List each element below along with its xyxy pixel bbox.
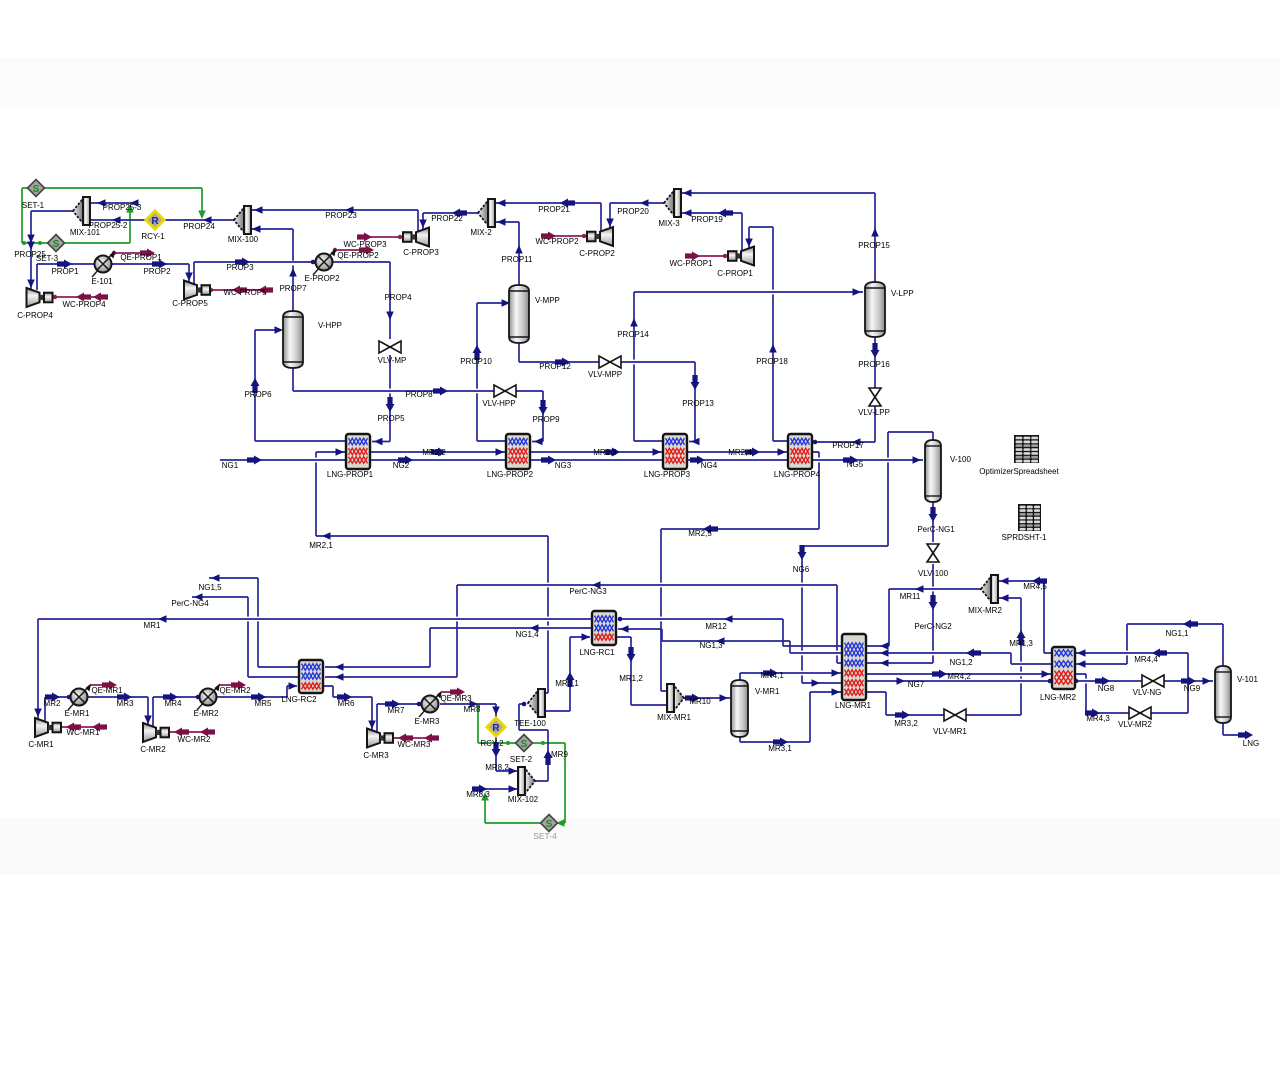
- stream PROP11: [495, 218, 523, 285]
- svg-text:VLV-NG: VLV-NG: [1133, 688, 1162, 697]
- stream PROP8: [293, 368, 494, 396]
- svg-text:MR9: MR9: [551, 750, 568, 759]
- svg-text:MR2,3: MR2,3: [593, 448, 617, 457]
- svg-text:MR2: MR2: [44, 699, 61, 708]
- svg-text:PROP16: PROP16: [858, 360, 890, 369]
- signal wire MR8 to SET-2: [476, 704, 516, 745]
- svg-text:MR4,5: MR4,5: [1023, 582, 1047, 591]
- stream MR4,5: [998, 577, 1052, 654]
- stream MR2: [45, 693, 71, 722]
- stream NG1: [220, 456, 346, 465]
- stream PROP21: [495, 199, 601, 232]
- energy stream WC-PROP3: [357, 233, 403, 242]
- stream NG9: [1164, 677, 1213, 686]
- stream MR5: [216, 682, 297, 701]
- compressor C-PROP5: [184, 281, 210, 300]
- svg-text:SET-1: SET-1: [22, 201, 45, 210]
- svg-text:MR12: MR12: [705, 622, 727, 631]
- svg-text:VLV-MR1: VLV-MR1: [933, 727, 967, 736]
- svg-text:VLV-MP: VLV-MP: [378, 356, 407, 365]
- svg-text:PROP21: PROP21: [538, 205, 570, 214]
- stream LNG: [1223, 723, 1253, 740]
- svg-text:MR8,2: MR8,2: [485, 763, 509, 772]
- compressor C-PROP1: [728, 247, 754, 266]
- svg-text:PROP15: PROP15: [858, 241, 890, 250]
- svg-text:MR8: MR8: [464, 705, 481, 714]
- svg-text:QE-PROP1: QE-PROP1: [120, 253, 162, 262]
- svg-text:PROP13: PROP13: [682, 399, 714, 408]
- svg-text:S: S: [546, 819, 553, 830]
- mixer MIX-MR2: [981, 575, 998, 603]
- stream MR4,2: [866, 670, 1052, 679]
- svg-text:C-PROP5: C-PROP5: [172, 299, 208, 308]
- svg-text:MR10: MR10: [689, 697, 711, 706]
- svg-text:VLV-100: VLV-100: [918, 569, 949, 578]
- lng exchanger LNG-MR1: [842, 634, 866, 700]
- svg-text:E-MR3: E-MR3: [415, 717, 440, 726]
- stream MR1,1: [545, 633, 590, 711]
- stream MR1,2: [616, 637, 667, 705]
- stream MR11: [866, 585, 981, 650]
- svg-text:MR1: MR1: [144, 621, 161, 630]
- signal wire SET-1 to PROP24: [44, 188, 206, 219]
- svg-text:QE-MR2: QE-MR2: [219, 686, 251, 695]
- spreadsheet SPRDSHT-1: [1018, 504, 1041, 531]
- valve VLV-MP: [379, 341, 401, 353]
- svg-text:MR3,1: MR3,1: [768, 744, 792, 753]
- stream MR12: [618, 615, 842, 646]
- lng exchanger LNG-MR2: [1052, 647, 1075, 689]
- energy stream WC-PROP4: [53, 293, 108, 302]
- svg-text:PROP10: PROP10: [460, 357, 492, 366]
- svg-text:SET-2: SET-2: [510, 755, 533, 764]
- svg-text:VLV-MR2: VLV-MR2: [1118, 720, 1152, 729]
- svg-text:RCY-1: RCY-1: [141, 232, 165, 241]
- svg-text:MR2,2: MR2,2: [422, 448, 446, 457]
- svg-text:NG1,2: NG1,2: [949, 658, 973, 667]
- lng exchanger LNG-RC2: [299, 660, 323, 693]
- svg-text:WC-PROP1: WC-PROP1: [669, 259, 713, 268]
- svg-text:C-MR1: C-MR1: [28, 740, 54, 749]
- svg-text:MR3,2: MR3,2: [894, 719, 918, 728]
- svg-text:PROP5: PROP5: [377, 414, 405, 423]
- svg-text:MR4: MR4: [165, 699, 182, 708]
- energy stream QE-PROP2: [333, 246, 374, 255]
- svg-text:PROP7: PROP7: [279, 284, 307, 293]
- svg-text:WC-PROP3: WC-PROP3: [343, 240, 387, 249]
- energy stream WC-MR3: [390, 734, 439, 743]
- stream MR8: [440, 700, 500, 717]
- svg-text:LNG-RC2: LNG-RC2: [281, 695, 317, 704]
- svg-text:SET-3: SET-3: [36, 254, 59, 263]
- svg-text:MR1,1: MR1,1: [555, 679, 579, 688]
- labels SET-4 gray: [533, 831, 557, 841]
- energy stream QE-PROP1: [112, 249, 155, 258]
- svg-text:NG2: NG2: [393, 461, 410, 470]
- svg-text:PROP17: PROP17: [832, 441, 864, 450]
- stream PROP5: [372, 355, 395, 445]
- svg-text:MR8,3: MR8,3: [466, 790, 490, 799]
- separator V-MR1: [731, 680, 748, 737]
- svg-text:RCY-2: RCY-2: [480, 739, 504, 748]
- svg-text:LNG-PROP3: LNG-PROP3: [644, 470, 691, 479]
- svg-text:PROP3: PROP3: [226, 263, 254, 272]
- stream NG7: [866, 677, 1052, 685]
- separator V-101: [1215, 666, 1231, 723]
- svg-text:PROP2: PROP2: [143, 267, 171, 276]
- energy stream WC-PROP2: [541, 232, 587, 241]
- stream MR1,3: [966, 594, 1026, 715]
- svg-text:NG8: NG8: [1098, 684, 1115, 693]
- stream MR2,1: [316, 448, 548, 540]
- stream MR2,2: [370, 448, 506, 457]
- cooler E-MR1: [68, 684, 91, 711]
- svg-text:PROP11: PROP11: [502, 255, 534, 264]
- lng exchanger LNG-PROP1: [346, 434, 370, 469]
- lng exchanger LNG-PROP2: [506, 434, 530, 469]
- stream PROP24: [163, 216, 234, 224]
- stream NG1,1: [1075, 620, 1223, 668]
- valve VLV-MR1: [944, 709, 966, 721]
- stream MR1: [34, 615, 592, 719]
- svg-text:LNG-RC1: LNG-RC1: [579, 648, 615, 657]
- svg-text:R: R: [492, 723, 500, 734]
- svg-text:NG1,5: NG1,5: [198, 583, 222, 592]
- tee TEE-100: [528, 689, 545, 717]
- svg-text:MR2,4: MR2,4: [728, 448, 752, 457]
- svg-text:QE-MR1: QE-MR1: [91, 686, 123, 695]
- svg-text:LNG-PROP4: LNG-PROP4: [774, 470, 821, 479]
- svg-text:R: R: [151, 216, 159, 227]
- svg-text:LNG-MR2: LNG-MR2: [1040, 693, 1077, 702]
- set block SET-4: [541, 815, 558, 832]
- svg-text:QE-MR3: QE-MR3: [440, 694, 472, 703]
- svg-text:VLV-LPP: VLV-LPP: [858, 408, 890, 417]
- svg-text:PROP20: PROP20: [617, 207, 649, 216]
- svg-text:MR2,5: MR2,5: [688, 529, 712, 538]
- stream MR7: [377, 700, 421, 732]
- signal wire SET-4 to MR8,3: [481, 792, 540, 823]
- stream PROP19: [681, 209, 742, 251]
- stream MR3,2: [866, 692, 944, 720]
- stream MR8,3: [472, 785, 518, 794]
- stream NG1,4: [325, 624, 592, 671]
- svg-text:LNG-PROP2: LNG-PROP2: [487, 470, 534, 479]
- svg-text:WC-PROP4: WC-PROP4: [62, 300, 106, 309]
- spreadsheet OptimizerSpreadsheet: [1014, 435, 1039, 463]
- stream PROP7: [251, 225, 297, 311]
- valve VLV-MR2: [1129, 707, 1151, 719]
- svg-text:V-LPP: V-LPP: [891, 289, 914, 298]
- stream MR4,4: [1075, 649, 1188, 714]
- valve VLV-NG: [1142, 675, 1164, 687]
- stream PROP25: [27, 211, 73, 290]
- svg-text:PROP8: PROP8: [405, 390, 433, 399]
- svg-text:MR4,2: MR4,2: [947, 672, 971, 681]
- compressor C-MR3: [367, 729, 393, 748]
- svg-text:VLV-HPP: VLV-HPP: [482, 399, 515, 408]
- stream NG8: [1074, 677, 1142, 686]
- energy stream WC-MR1: [58, 723, 107, 732]
- svg-text:SPRDSHT-1: SPRDSHT-1: [1002, 533, 1047, 542]
- valve VLV-MPP: [599, 356, 621, 368]
- svg-text:QE-PROP2: QE-PROP2: [337, 251, 379, 260]
- svg-text:MR1,2: MR1,2: [619, 674, 643, 683]
- svg-text:WC-PROP5: WC-PROP5: [223, 288, 267, 297]
- svg-text:C-PROP4: C-PROP4: [17, 311, 53, 320]
- svg-text:NG9: NG9: [1184, 684, 1201, 693]
- energy stream WC-PROP1: [685, 252, 728, 261]
- stream MR4,1: [740, 669, 842, 681]
- svg-text:MIX-100: MIX-100: [228, 235, 259, 244]
- stream PROP15: [681, 189, 879, 282]
- svg-text:NG1,1: NG1,1: [1165, 629, 1189, 638]
- set block SET-3: [48, 235, 65, 252]
- separator V-100: [925, 440, 941, 502]
- svg-text:PROP25-3: PROP25-3: [103, 203, 142, 212]
- svg-text:LNG-MR1: LNG-MR1: [835, 701, 872, 710]
- svg-text:LNG: LNG: [1243, 739, 1259, 748]
- stream PROP25-3: [90, 199, 139, 207]
- svg-text:PROP1: PROP1: [51, 267, 79, 276]
- svg-text:MR1,3: MR1,3: [1009, 639, 1033, 648]
- svg-text:C-PROP1: C-PROP1: [717, 269, 753, 278]
- stream MR6: [323, 686, 376, 731]
- stream NG4: [687, 456, 788, 465]
- lng exchanger LNG-PROP4: [788, 434, 812, 469]
- svg-text:OptimizerSpreadsheet: OptimizerSpreadsheet: [979, 467, 1059, 476]
- stream NG1,2: [866, 649, 1052, 665]
- svg-text:MR4,4: MR4,4: [1134, 655, 1158, 664]
- stream PROP13: [621, 362, 700, 445]
- svg-text:MR7: MR7: [388, 706, 405, 715]
- stream NG1,3: [618, 625, 842, 653]
- svg-text:C-MR2: C-MR2: [140, 745, 166, 754]
- svg-text:S: S: [33, 184, 40, 195]
- energy stream QE-MR3: [442, 688, 465, 697]
- stream PROP1: [37, 260, 94, 291]
- stream MR2,3: [530, 448, 663, 457]
- valve VLV-HPP: [494, 385, 516, 397]
- background shading band bottom: [0, 818, 1280, 875]
- stream PROP6: [251, 326, 347, 441]
- svg-text:LNG-PROP1: LNG-PROP1: [327, 470, 374, 479]
- svg-text:PROP18: PROP18: [756, 357, 788, 366]
- stream PerC-NG1: [929, 502, 938, 542]
- energy stream WC-MR2: [166, 728, 215, 737]
- svg-text:E-101: E-101: [91, 277, 113, 286]
- svg-text:MIX-102: MIX-102: [508, 795, 539, 804]
- svg-text:PerC-NG1: PerC-NG1: [917, 525, 955, 534]
- cooler E-MR3: [419, 691, 442, 718]
- svg-text:NG4: NG4: [701, 461, 718, 470]
- mixer MIX-102: [518, 767, 535, 795]
- svg-text:NG1: NG1: [222, 461, 239, 470]
- svg-text:WC-PROP2: WC-PROP2: [535, 237, 579, 246]
- stream NG5: [812, 456, 923, 465]
- svg-text:TEE-100: TEE-100: [514, 719, 546, 728]
- svg-text:PROP23: PROP23: [325, 211, 357, 220]
- svg-text:NG3: NG3: [555, 461, 572, 470]
- svg-text:V-HPP: V-HPP: [318, 321, 342, 330]
- recycle block RCY-1: [146, 211, 164, 229]
- stream MR3,1: [740, 688, 842, 746]
- svg-text:NG5: NG5: [847, 460, 864, 469]
- stream PROP18: [745, 227, 788, 441]
- stream MR2,1 riser: [545, 536, 548, 693]
- svg-text:PROP22: PROP22: [431, 214, 463, 223]
- svg-text:MR4,3: MR4,3: [1086, 714, 1110, 723]
- stream MR4: [153, 693, 200, 727]
- svg-text:MIX-2: MIX-2: [470, 228, 492, 237]
- svg-text:PerC-NG2: PerC-NG2: [914, 622, 952, 631]
- stream PROP16: [871, 337, 880, 388]
- stream PROP10: [473, 299, 511, 441]
- svg-text:VLV-MPP: VLV-MPP: [588, 370, 622, 379]
- set block SET-2: [516, 735, 533, 752]
- compressor C-MR1: [35, 718, 61, 737]
- compressor C-MR2: [143, 723, 169, 742]
- stream MR2,5: [661, 452, 819, 691]
- stream PROP25-2: [90, 216, 148, 224]
- svg-text:MR2,1: MR2,1: [309, 541, 333, 550]
- set block SET-1: [28, 180, 45, 197]
- stream NG6: [798, 432, 934, 687]
- stream MR3: [88, 693, 152, 727]
- separator V-MPP: [509, 285, 529, 343]
- valve VLV-100: [927, 544, 939, 562]
- cooler E-101: [92, 251, 115, 278]
- energy stream QE-MR1: [90, 681, 117, 690]
- cooler E-PROP2: [313, 249, 336, 276]
- stream PerC-NG4: [192, 593, 299, 677]
- svg-text:SET-4: SET-4: [533, 831, 557, 841]
- svg-text:PROP19: PROP19: [691, 215, 723, 224]
- stream MR8,2: [492, 736, 519, 775]
- svg-text:E-MR1: E-MR1: [65, 709, 90, 718]
- stream PROP2: [112, 260, 193, 283]
- svg-text:WC-MR2: WC-MR2: [178, 735, 211, 744]
- svg-text:NG1,3: NG1,3: [699, 641, 723, 650]
- mixer MIX-3: [664, 189, 681, 217]
- svg-text:MIX-MR1: MIX-MR1: [657, 713, 691, 722]
- stream NG3: [530, 456, 663, 465]
- svg-text:MIX-MR2: MIX-MR2: [968, 606, 1002, 615]
- lng exchanger LNG-RC1: [592, 611, 616, 645]
- stream MR2,4: [687, 448, 788, 457]
- stream MR10: [684, 694, 730, 703]
- svg-text:NG1,4: NG1,4: [515, 630, 539, 639]
- svg-text:S: S: [53, 239, 60, 250]
- signal wire SET-2 to SET-4: [533, 741, 565, 827]
- svg-text:PerC-NG4: PerC-NG4: [171, 599, 209, 608]
- svg-text:MIX-3: MIX-3: [658, 219, 680, 228]
- svg-text:S: S: [521, 739, 528, 750]
- stream PROP3: [194, 258, 315, 285]
- svg-text:PROP25-2: PROP25-2: [89, 221, 128, 230]
- svg-text:C-PROP2: C-PROP2: [579, 249, 615, 258]
- svg-text:PROP12: PROP12: [539, 362, 571, 371]
- compressor C-PROP4: [27, 288, 53, 307]
- stream PerC-NG3: [325, 581, 837, 681]
- svg-text:PROP6: PROP6: [244, 390, 272, 399]
- stream PROP20: [606, 199, 664, 228]
- svg-text:PROP14: PROP14: [617, 330, 649, 339]
- svg-text:E-MR2: E-MR2: [194, 709, 219, 718]
- compressor C-PROP2: [587, 227, 613, 246]
- svg-text:C-PROP3: C-PROP3: [403, 248, 439, 257]
- svg-text:MR6: MR6: [338, 699, 355, 708]
- energy stream QE-MR2: [219, 681, 246, 690]
- signal wire SET-3 to PROP25-3: [64, 204, 134, 243]
- mixer MIX-101: [73, 197, 90, 225]
- signal wire SET-1 to PROP25/SET-3: [22, 188, 48, 245]
- svg-text:PROP9: PROP9: [532, 415, 560, 424]
- background shading band top: [0, 58, 1280, 108]
- stream PerC-NG3 source: [837, 585, 842, 663]
- stream PROP9: [516, 391, 548, 445]
- svg-text:V-101: V-101: [1237, 675, 1258, 684]
- svg-text:E-PROP2: E-PROP2: [304, 274, 340, 283]
- svg-text:V-MPP: V-MPP: [535, 296, 560, 305]
- stream PROP22: [419, 209, 478, 230]
- stream PROP17: [813, 406, 875, 446]
- stream NG1,5: [209, 574, 299, 667]
- mixer MIX-MR1: [667, 684, 684, 712]
- separator V-HPP: [283, 311, 303, 368]
- stream MR9: [519, 702, 553, 781]
- separator V-LPP: [865, 282, 885, 337]
- svg-text:NG7: NG7: [908, 680, 925, 689]
- svg-text:PROP24: PROP24: [183, 222, 215, 231]
- mixer MIX-100: [234, 206, 251, 234]
- compressor C-PROP3: [403, 228, 429, 247]
- stream PROP4: [333, 262, 394, 339]
- stream PROP14: [630, 288, 863, 441]
- stream NG2: [370, 456, 506, 465]
- stream PROP12: [519, 343, 599, 367]
- stream PerC-NG2: [866, 564, 938, 667]
- energy stream WC-PROP5: [209, 286, 273, 295]
- mixer MIX-2: [478, 199, 495, 227]
- cooler E-MR2: [197, 684, 220, 711]
- stream PROP23: [252, 206, 418, 231]
- valve VLV-LPP: [869, 388, 881, 406]
- recycle block RCY-2: [487, 718, 505, 736]
- svg-text:MR5: MR5: [255, 699, 272, 708]
- svg-text:WC-MR1: WC-MR1: [67, 728, 100, 737]
- svg-text:V-100: V-100: [950, 455, 971, 464]
- svg-text:MR4,1: MR4,1: [760, 671, 784, 680]
- svg-text:MR3: MR3: [117, 699, 134, 708]
- svg-text:V-MR1: V-MR1: [755, 687, 780, 696]
- svg-text:MR11: MR11: [900, 592, 921, 601]
- lng exchanger LNG-PROP3: [663, 434, 687, 469]
- svg-text:PerC-NG3: PerC-NG3: [569, 587, 607, 596]
- svg-text:C-MR3: C-MR3: [363, 751, 389, 760]
- svg-text:PROP4: PROP4: [384, 293, 412, 302]
- stream MR4,3: [1075, 674, 1129, 718]
- svg-text:WC-MR3: WC-MR3: [398, 740, 431, 749]
- svg-text:NG6: NG6: [793, 565, 810, 574]
